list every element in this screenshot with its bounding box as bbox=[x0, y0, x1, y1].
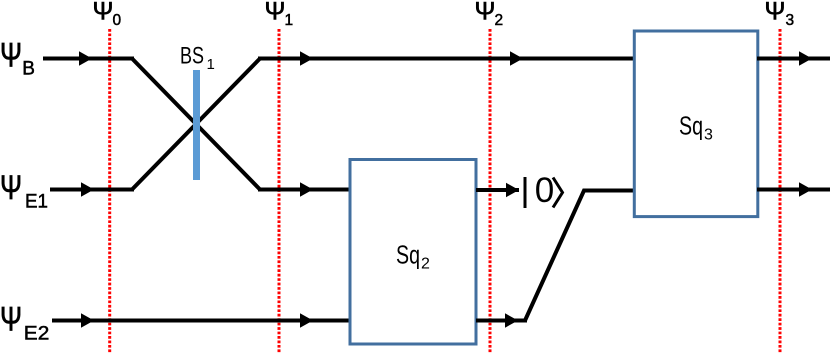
wire BS1 diagonal up (PsiE1 to upper port) bbox=[132, 59, 260, 190]
arrow Sq3 bottom output bbox=[799, 182, 812, 196]
node Psi1 dotted reference line bbox=[278, 29, 281, 353]
svg-text:3: 3 bbox=[704, 127, 713, 144]
svg-text:Sq: Sq bbox=[679, 111, 703, 141]
arrow Sq2 middle output bbox=[506, 183, 519, 197]
svg-text:BS: BS bbox=[180, 43, 204, 70]
svg-text:Ψ: Ψ bbox=[0, 301, 22, 339]
squeezer box Sq3 bbox=[634, 31, 758, 217]
svg-text:2: 2 bbox=[421, 256, 430, 273]
arrow Sq2 bottom output bbox=[505, 313, 518, 327]
node Psi0 dotted reference line bbox=[108, 29, 111, 353]
wire PsiE2 bottom beam bbox=[52, 319, 352, 323]
wire BS1 diagonal down (PsiB to lower port) bbox=[132, 59, 260, 190]
wire Sq2 middle output to vacuum bbox=[476, 188, 519, 192]
arrow middle beam after Psi1 bbox=[300, 182, 313, 196]
wire top beam to Sq3 bbox=[258, 57, 636, 61]
svg-text:0: 0 bbox=[535, 170, 555, 210]
arrow top beam after Psi1 bbox=[300, 51, 313, 65]
wire diagonal riser to Sq3 bbox=[525, 191, 636, 321]
wire PsiB input segment bbox=[43, 57, 134, 61]
label vacuum state |0> bbox=[525, 170, 563, 210]
arrow top beam after Psi2 bbox=[510, 51, 523, 65]
svg-text:B: B bbox=[22, 58, 35, 79]
arrow on PsiB input bbox=[79, 51, 92, 65]
wire Sq3 bottom output bbox=[757, 188, 830, 192]
svg-text:Sq: Sq bbox=[396, 240, 420, 270]
wire PsiE1 input segment bbox=[50, 188, 134, 192]
svg-text:2: 2 bbox=[495, 12, 504, 29]
svg-text:Ψ: Ψ bbox=[765, 0, 786, 26]
wire Sq2 bottom output bbox=[476, 319, 527, 323]
svg-text:0: 0 bbox=[113, 12, 122, 29]
svg-text:3: 3 bbox=[786, 12, 795, 29]
arrow Sq3 top output bbox=[799, 51, 812, 65]
squeezer box Sq2 bbox=[350, 160, 476, 345]
svg-text:E2: E2 bbox=[24, 324, 50, 345]
svg-text:1: 1 bbox=[285, 12, 294, 29]
svg-text:Ψ: Ψ bbox=[0, 37, 22, 75]
node Psi2 dotted reference line bbox=[489, 29, 492, 353]
svg-text:Ψ: Ψ bbox=[265, 0, 286, 26]
arrow on PsiE1 input bbox=[81, 182, 94, 196]
svg-text:E1: E1 bbox=[25, 192, 48, 213]
arrow bottom beam after Psi1 bbox=[300, 313, 313, 327]
svg-text:Ψ: Ψ bbox=[93, 0, 114, 26]
svg-text:Ψ: Ψ bbox=[0, 169, 22, 207]
arrow bottom beam input bbox=[81, 313, 94, 327]
beam splitter BS1 bbox=[193, 70, 200, 180]
wire Sq3 top output bbox=[757, 57, 830, 61]
svg-text:1: 1 bbox=[207, 56, 215, 73]
node Psi3 dotted reference line bbox=[779, 29, 782, 353]
svg-text:Ψ: Ψ bbox=[475, 0, 496, 26]
wire middle beam to Sq2 bbox=[258, 188, 352, 192]
